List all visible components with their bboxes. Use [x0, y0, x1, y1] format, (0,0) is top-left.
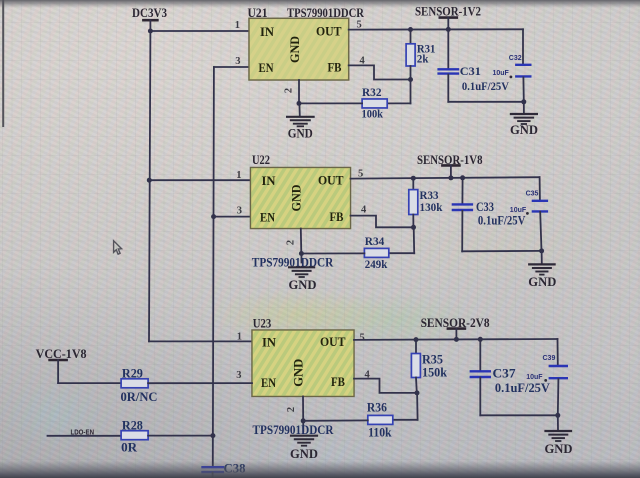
wire VCC-1V8 to R29 — [58, 382, 121, 384]
wire to U22 pin 3 EN — [214, 216, 251, 218]
resistor R29 — [121, 379, 148, 388]
wire C31 down — [447, 75, 449, 102]
svg-text:2: 2 — [286, 240, 297, 245]
wire R29 to U23 pin 3 EN — [148, 382, 252, 384]
junction OUT rail / R35 — [414, 337, 419, 342]
ground symbol U22 pin 2 — [289, 267, 314, 277]
junction C32 / GND — [521, 99, 526, 104]
wire rail corner down to C32 — [522, 29, 524, 63]
junction R28 / EN net / C38 — [210, 433, 215, 438]
svg-text:EN: EN — [260, 209, 276, 224]
junction OUT rail / C33 — [460, 175, 465, 180]
svg-text:DC3V3: DC3V3 — [132, 6, 167, 20]
svg-text:FB: FB — [330, 209, 344, 224]
wire SENSOR-2V8 down to C37 — [479, 339, 481, 370]
wire R28 to EN net — [148, 435, 213, 437]
svg-text:GND: GND — [528, 275, 556, 289]
wire U23 pin 4 FB to node — [354, 379, 417, 393]
capacitor C32 polarized — [516, 65, 530, 77]
capacitor C37 — [471, 371, 490, 377]
wire C38 down — [212, 473, 214, 478]
svg-text:C35: C35 — [526, 191, 539, 198]
wire rail corner down to C35 — [539, 177, 541, 199]
junction C35 / GND — [539, 248, 544, 253]
power port VCC-1V8 — [50, 360, 67, 383]
svg-text:TPS79901DDCR: TPS79901DDCR — [287, 6, 365, 20]
wire to ground symbol right 3 — [557, 415, 559, 430]
svg-text:C32: C32 — [509, 55, 522, 62]
polarity dot C39 — [544, 379, 547, 382]
svg-text:10uF: 10uF — [493, 70, 510, 77]
svg-text:0.1uF/25V: 0.1uF/25V — [495, 381, 550, 395]
resistor R35 — [411, 354, 420, 378]
wire R32 right — [387, 102, 410, 104]
wire U23 OUT rail SENSOR-2V8 — [354, 338, 558, 341]
svg-text:U21: U21 — [248, 6, 268, 20]
svg-text:GND: GND — [290, 447, 318, 461]
svg-text:GND: GND — [545, 442, 573, 456]
svg-text:GND: GND — [287, 36, 302, 63]
wire C33 to C35 bottom net — [462, 250, 541, 252]
wire R33 to FB node — [412, 215, 414, 228]
capacitor C38 — [203, 467, 223, 472]
power port SENSOR-1V8 — [442, 165, 459, 178]
junction U23 pin2 / R36 — [301, 418, 306, 423]
ground symbol C31 C32 — [511, 114, 537, 124]
wire U21 pin 4 FB to node — [349, 65, 411, 79]
svg-text:2: 2 — [286, 407, 297, 412]
resistor R34 — [364, 248, 388, 257]
svg-text:1: 1 — [236, 170, 241, 181]
svg-text:U23: U23 — [253, 317, 272, 331]
ground symbol U23 pin 2 — [291, 436, 317, 446]
op-amp U23 regulator body TPS79901DDCR — [252, 330, 354, 396]
window edge line left — [2, 0, 4, 127]
screen-edge dark band bottom — [0, 461, 640, 478]
svg-text:5: 5 — [360, 332, 365, 343]
wire DC3V3 to U22 pin 1 IN — [149, 179, 250, 181]
svg-text:1: 1 — [237, 331, 242, 342]
wire SENSOR-1V8 down to C33 — [461, 178, 463, 204]
svg-text:EN: EN — [261, 375, 277, 390]
svg-text:10uF: 10uF — [526, 374, 543, 381]
svg-text:EN: EN — [259, 60, 275, 75]
wire U21 OUT rail SENSOR-1V2 — [349, 28, 523, 30]
wire to ground symbol U22 — [300, 254, 302, 263]
junction FB node U21 — [408, 77, 413, 82]
svg-text:R29: R29 — [122, 366, 143, 380]
svg-text:0.1uF/25V: 0.1uF/25V — [478, 213, 526, 227]
svg-text:FB: FB — [328, 59, 342, 74]
polarity dot C32 — [510, 76, 513, 79]
wire C35 down — [540, 212, 541, 251]
svg-text:GND: GND — [510, 123, 538, 137]
svg-text:0R/NC: 0R/NC — [121, 390, 158, 404]
svg-text:110k: 110k — [368, 426, 392, 440]
capacitor C31 — [439, 69, 458, 73]
junction U22 pin2 / R34 — [299, 251, 304, 256]
power port SENSOR-2V8 — [448, 329, 465, 340]
svg-text:C31: C31 — [460, 66, 481, 78]
svg-text:C37: C37 — [493, 367, 516, 381]
resistor R28 — [121, 431, 148, 440]
svg-text:2k: 2k — [417, 53, 429, 65]
svg-text:GND: GND — [289, 185, 304, 212]
svg-text:0R: 0R — [121, 440, 138, 454]
svg-text:SENSOR-1V8: SENSOR-1V8 — [417, 153, 483, 167]
junction OUT rail / SENSOR-2V8 — [454, 337, 459, 342]
wire LDO-EN to R28 — [48, 435, 122, 437]
resistor R33 — [409, 190, 418, 215]
junction C39 / GND — [555, 413, 560, 418]
svg-text:IN: IN — [262, 334, 277, 349]
svg-text:3: 3 — [236, 370, 241, 381]
wire R34 right — [389, 252, 414, 254]
wire R36 left to U23 GND pin — [303, 419, 368, 421]
screen-edge dark band top — [0, 0, 640, 8]
svg-text:R34: R34 — [365, 236, 385, 248]
wire C37 down — [479, 378, 481, 416]
svg-text:100k: 100k — [362, 109, 384, 121]
svg-text:FB: FB — [331, 374, 345, 389]
ground symbol U21 pin 2 — [287, 117, 314, 127]
resistor R32 — [362, 99, 387, 108]
wire rail corner down to C39 — [557, 339, 559, 365]
wire C31 to C32 bottom net — [448, 101, 524, 103]
svg-text:C33: C33 — [476, 200, 494, 214]
svg-text:3: 3 — [237, 205, 242, 216]
wire R35 to FB node — [415, 378, 418, 393]
svg-text:IN: IN — [262, 173, 277, 188]
svg-text:R36: R36 — [367, 400, 387, 414]
wire EN vertical net — [213, 67, 214, 466]
svg-text:3: 3 — [235, 56, 240, 67]
wire to ground symbol U23 — [302, 421, 304, 431]
svg-text:2: 2 — [284, 88, 295, 93]
svg-text:10uF: 10uF — [510, 207, 527, 214]
wire OUT rail to R31 — [410, 30, 412, 44]
junction OUT rail / SENSOR-1V8 — [448, 175, 453, 180]
wire DC3V3 vertical rail — [149, 31, 150, 341]
svg-text:R35: R35 — [422, 353, 443, 367]
svg-text:IN: IN — [260, 24, 275, 39]
wire R31 to FB node — [410, 66, 412, 80]
svg-text:OUT: OUT — [318, 172, 344, 187]
wire U23 pin 2 GND down — [302, 396, 304, 420]
wire FB node down to R36 — [416, 393, 419, 420]
junction FB node U23 — [415, 390, 420, 395]
svg-text:U22: U22 — [252, 153, 270, 167]
wire U22 pin 2 GND down — [300, 229, 303, 254]
svg-text:C39: C39 — [543, 355, 556, 362]
wire C39 down — [557, 379, 560, 415]
wire to ground symbol right 1 — [523, 102, 525, 113]
svg-text:OUT: OUT — [320, 334, 346, 349]
junction EN net / U22 EN — [211, 214, 216, 219]
wire U22 pin 4 FB to node — [351, 216, 414, 228]
polarity dot C35 — [526, 212, 529, 215]
ground symbol C33 C35 — [529, 264, 554, 274]
svg-text:GND: GND — [288, 126, 313, 140]
svg-text:249k: 249k — [365, 259, 388, 271]
svg-text:GND: GND — [289, 278, 317, 292]
svg-text:SENSOR-2V8: SENSOR-2V8 — [421, 316, 490, 330]
wire C33 down — [461, 211, 463, 251]
wire DC3V3 to U21 pin 1 IN — [150, 30, 249, 32]
wire R34 left to U22 GND pin — [301, 252, 364, 254]
junction OUT rail / C37 — [478, 337, 483, 342]
capacitor C33 — [453, 204, 472, 210]
mouse cursor — [114, 241, 122, 254]
svg-text:130k: 130k — [420, 202, 444, 214]
svg-text:VCC-1V8: VCC-1V8 — [36, 347, 87, 361]
junction OUT rail / SENSOR-1V2 / C31 — [446, 27, 451, 32]
wire OUT rail to R33 — [412, 178, 414, 189]
svg-text:R32: R32 — [362, 87, 382, 99]
wire to U21 pin 3 EN — [214, 66, 249, 68]
junction U21 pin2 / R32 — [297, 101, 302, 106]
resistor R36 — [368, 415, 393, 424]
wire FB node down to R32 — [410, 80, 412, 104]
wire OUT rail to R35 — [415, 340, 417, 354]
wire R36 right — [393, 419, 418, 421]
power port SENSOR-1V2 — [440, 18, 457, 30]
wire FB node down to R34 — [413, 227, 416, 253]
ground symbol C37 C39 — [546, 431, 572, 441]
junction FB node U22 — [411, 225, 416, 230]
wire U22 OUT rail SENSOR-1V8 — [351, 177, 540, 178]
op-amp U21 regulator body TPS79901DDCR — [249, 18, 349, 80]
svg-text:150k: 150k — [422, 366, 447, 380]
wire to ground symbol right 2 — [541, 251, 543, 263]
svg-text:R33: R33 — [420, 190, 439, 202]
junction DC3V3 / U21 IN — [148, 29, 153, 34]
wire SENSOR-1V2 down to C31 — [447, 29, 449, 68]
svg-text:OUT: OUT — [316, 23, 342, 38]
junction OUT rail / R31 — [408, 27, 413, 32]
capacitor C35 polarized — [533, 201, 547, 212]
wire C32 down — [522, 77, 524, 101]
svg-text:1: 1 — [235, 20, 240, 31]
wire U21 pin 2 GND down — [298, 80, 300, 103]
resistor R31 — [406, 44, 415, 66]
junction OUT rail / R33 — [411, 176, 416, 181]
wire to ground symbol U21 — [298, 103, 300, 116]
svg-text:R28: R28 — [122, 418, 143, 432]
wire DC3V3 to U23 pin 1 IN — [149, 340, 252, 342]
svg-text:0.1uF/25V: 0.1uF/25V — [462, 81, 510, 93]
svg-text:4: 4 — [361, 204, 367, 215]
capacitor C39 polarized — [550, 366, 567, 378]
wire C37 to C39 bottom net — [480, 414, 557, 416]
wire R32 left to U21 GND pin — [299, 102, 362, 104]
svg-text:GND: GND — [291, 359, 306, 387]
power port DC3V3 — [143, 20, 157, 31]
junction DC3V3 / U22 IN — [147, 178, 152, 183]
op-amp U22 regulator body TPS79901DDCR — [251, 168, 351, 229]
